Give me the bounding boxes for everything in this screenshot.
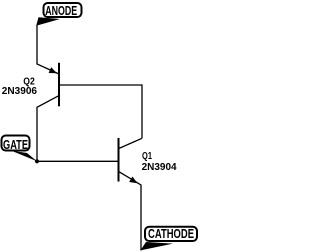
wire gate node to Q1 base [37,160,119,162]
transistor Q2 base bar [58,63,60,107]
wire anode to Q2 emitter [37,25,59,74]
svg-text:2N3906: 2N3906 [2,85,37,97]
node gate junction dot [35,159,39,163]
svg-text:ANODE: ANODE [45,4,77,18]
svg-text:2N3904: 2N3904 [142,161,177,173]
transistor Q1 base bar [118,138,120,182]
transistor Q2 collector [37,96,59,162]
node ANODE flag tail [36,17,60,26]
svg-text:GATE: GATE [3,138,28,152]
node GATE flag box [2,136,30,151]
node CATHODE flag box [145,227,197,241]
wire Q2 base to Q1 collector [59,85,142,138]
transistor Q2 emitter arrow (PNP) [49,67,57,73]
transistor Q1 emitter with wire to cathode [119,171,142,250]
node GATE flag tail [12,151,38,162]
transistor Q1 collector [119,138,143,148]
node CATHODE flag tail [140,242,173,250]
svg-text:CATHODE: CATHODE [148,227,194,241]
node ANODE flag box [44,3,82,17]
transistor Q1 emitter arrow (NPN) [129,176,137,183]
